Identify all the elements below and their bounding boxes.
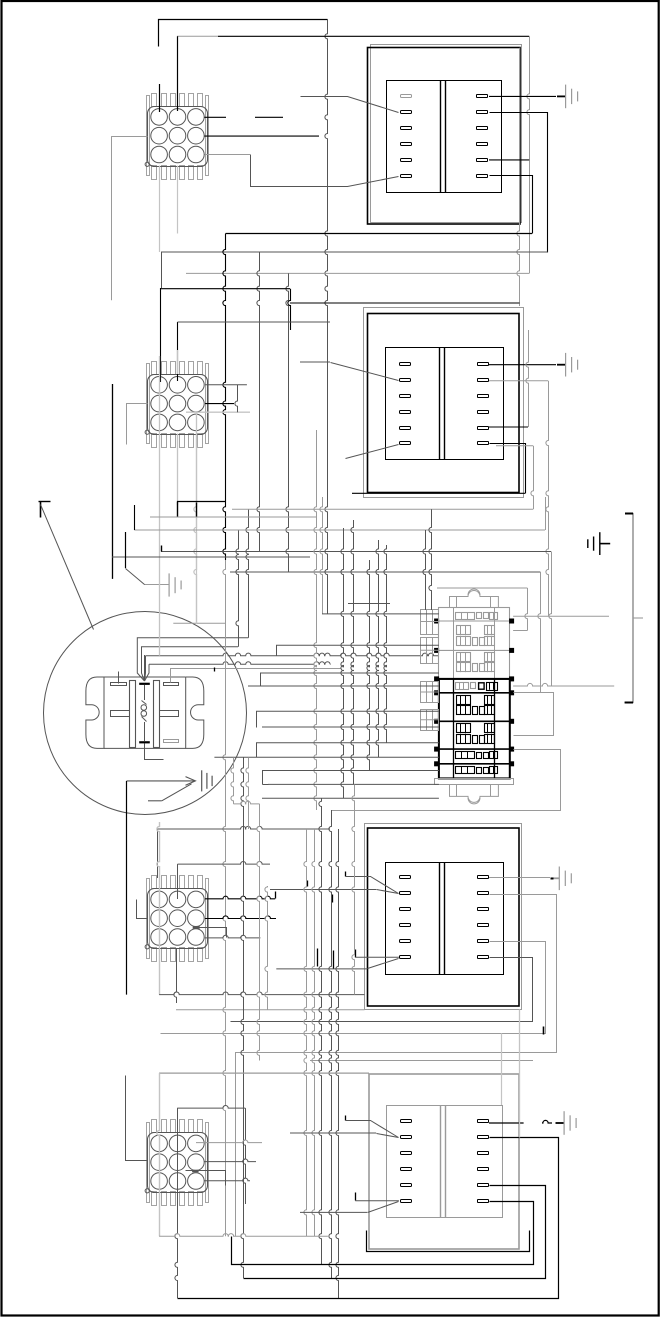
module U4 outer case bbox=[369, 1074, 519, 1249]
wire x551 drop bbox=[549, 552, 552, 687]
grid block A bbox=[421, 610, 439, 635]
wire K4 col1 gray bbox=[157, 1073, 160, 1236]
fuse box upper inner col right bbox=[494, 608, 496, 679]
connector K4 left rail bbox=[147, 1123, 150, 1203]
fuse row G square 2 bbox=[484, 753, 489, 759]
connector K4 bottom tab 2b bbox=[180, 1192, 185, 1206]
detail coil squiggle bottom bbox=[142, 717, 147, 722]
connector K1 bottom tab 1a bbox=[152, 166, 157, 180]
wire bundle x267 bbox=[265, 886, 268, 1010]
connector K3 pin circle 6 bbox=[188, 910, 205, 927]
module U3 gray wrap rect bbox=[365, 824, 522, 1010]
fuse box upper inner col left bbox=[453, 608, 455, 679]
fuse box rail tab left y678 bbox=[435, 677, 439, 681]
wire U4 R2 wrap B3 bbox=[178, 1138, 559, 1299]
wire gray drop x528 bbox=[526, 330, 529, 427]
wire K2 bottom gray 2 bbox=[177, 434, 179, 506]
connector K3 left rail bbox=[147, 879, 150, 959]
detail bottom lead wire bbox=[145, 744, 164, 760]
fuse row B right upper bbox=[485, 626, 495, 635]
connector K4 bottom tab 3a bbox=[189, 1192, 194, 1206]
connector K3 top tab 1b bbox=[162, 876, 167, 889]
fuse box rail tab right y749 bbox=[510, 747, 514, 751]
wire x157 into K3 bbox=[157, 829, 159, 878]
wire K2 col1 light bbox=[159, 356, 161, 656]
fuse row A square 1 bbox=[477, 613, 482, 619]
connector K1 top tab 2b bbox=[180, 94, 185, 107]
module U1 right pin 2 bbox=[477, 111, 488, 114]
module U1 left pin 1 bbox=[401, 95, 412, 98]
connector K1 pin circle 3 bbox=[188, 109, 205, 126]
wire fuse ladder 7 bbox=[262, 726, 439, 728]
wire K3 col1 gray bbox=[157, 822, 160, 995]
connector K4 bottom tab 1a bbox=[152, 1192, 157, 1206]
fuse row D black square bbox=[479, 683, 485, 689]
wire ladder y530 right up bbox=[545, 497, 547, 530]
bracket right bbox=[625, 514, 643, 703]
module U3 inner body bbox=[386, 863, 504, 975]
wire K2 col2 light top bbox=[177, 350, 179, 374]
wire gray y1009 bbox=[176, 1009, 365, 1011]
wire bundle x243 bbox=[241, 757, 244, 1278]
fuse box rail tab right y678 bbox=[510, 677, 514, 681]
wire fuse ladder 2 bbox=[276, 644, 439, 646]
module U4 right pin 6 bbox=[478, 1200, 489, 1203]
fuse row D left group bbox=[456, 683, 469, 690]
wire U3 R6 wrap bbox=[231, 958, 533, 1022]
connector K4 bottom tab 1b bbox=[162, 1192, 167, 1206]
wire ladder stub f bbox=[263, 784, 269, 786]
connector K1 pin circle 7 bbox=[151, 146, 168, 163]
fuse row B right lower bbox=[485, 637, 495, 646]
fuse box lower inner col left bbox=[453, 679, 455, 779]
wire U2 R6 wrap bbox=[490, 444, 526, 494]
connector K1 right rail bbox=[206, 96, 209, 176]
module U3 divider line 2 bbox=[444, 863, 446, 976]
leader line to balloon bbox=[41, 505, 94, 630]
module U4 left pin 3 bbox=[401, 1152, 412, 1155]
detail fan wire 2 bbox=[142, 647, 239, 681]
wire spine x378 bbox=[376, 540, 379, 757]
wire gray drop x519 bbox=[517, 48, 520, 306]
wire fuse wrap C top bbox=[437, 587, 527, 589]
connector K3 pin circle 3 bbox=[188, 891, 205, 908]
connector K2 bottom tab 3b bbox=[198, 434, 203, 448]
module U2 divider line 2 bbox=[444, 348, 446, 461]
wire y493 under U2 bbox=[352, 492, 525, 494]
fuse box rail y763 bbox=[436, 763, 513, 765]
wire K1 bottom gray 1 bbox=[159, 166, 161, 252]
fuse box rail tab right y621 bbox=[510, 619, 514, 623]
wire fuse ladder 6 bbox=[256, 710, 439, 712]
wire ladder stub c bbox=[256, 712, 258, 728]
module U4 left pin 5 bbox=[401, 1184, 412, 1187]
connector K4 top tab 1b bbox=[162, 1120, 167, 1133]
connector K1 pin circle 9 bbox=[188, 146, 205, 163]
wire fuse top a bbox=[348, 603, 390, 605]
wire left drop x112 lower bbox=[112, 384, 114, 579]
fuse row C right lower bbox=[485, 663, 495, 672]
detail center contact bottom bbox=[139, 741, 150, 743]
fuse row F right lower bbox=[485, 735, 495, 744]
fuse box rail tab right y692 bbox=[510, 691, 514, 695]
wire K1 left gray bbox=[112, 136, 148, 138]
module U3 divider line 1 bbox=[439, 863, 441, 976]
fuse row B left upper bbox=[457, 626, 471, 635]
wire K4 col1 feed bbox=[159, 1072, 369, 1074]
module U1 right pin 5 bbox=[477, 159, 488, 162]
connector K1 top tab 3a bbox=[189, 94, 194, 107]
fuse box rail y749 bbox=[436, 748, 513, 750]
wire fuse wrap C bottom bbox=[513, 630, 527, 632]
module U2 gray wrap rect bbox=[364, 308, 524, 498]
module U2 right pin 3 bbox=[478, 395, 489, 398]
black tick x307 bbox=[307, 881, 309, 887]
connector K3 body bbox=[148, 889, 208, 949]
black tick x317 bbox=[317, 949, 319, 967]
connector K3 pin circle 5 bbox=[169, 910, 186, 927]
wire K1 pin3 right b bbox=[255, 116, 283, 118]
connector K1 top tab 1b bbox=[162, 94, 167, 107]
wire x290 drop bbox=[288, 289, 291, 330]
connector K1 bottom tab 2a bbox=[171, 166, 176, 180]
wire U1 R1 to ground bbox=[489, 95, 556, 97]
wire y994 long bbox=[159, 992, 364, 995]
wire x425 drop to grid bbox=[423, 530, 426, 610]
wire y303 bbox=[290, 302, 520, 304]
fuse row E square 2 bbox=[480, 707, 485, 715]
fuse row F left lower bbox=[457, 735, 471, 744]
connector K4 pin circle 4 bbox=[151, 1154, 168, 1171]
connector K1 body bbox=[148, 107, 208, 167]
detail balloon circle bbox=[44, 612, 247, 815]
module U4 left pin 4 bbox=[401, 1168, 412, 1171]
wire K4 chip bbox=[193, 1170, 199, 1172]
module U1 left pin 5 bbox=[401, 159, 412, 162]
fuse row B square 2 bbox=[480, 638, 485, 646]
wire K2 light branch bbox=[186, 411, 250, 413]
connector K1 top tab 1a bbox=[152, 94, 157, 107]
detail right T bar bbox=[160, 711, 179, 717]
fuse row A right group bbox=[490, 613, 498, 620]
connector K3 bottom tab 2a bbox=[171, 948, 176, 962]
connector K3 pin circle 1 bbox=[151, 891, 168, 908]
module U1 inner body bbox=[387, 81, 502, 193]
module U4 right pin 2 bbox=[478, 1136, 489, 1139]
connector K3 top tab 2a bbox=[171, 876, 176, 889]
wire x233 short bbox=[231, 757, 234, 804]
wire U3 fan L6 b feed bbox=[276, 968, 367, 970]
connector K1 pin circle 4 bbox=[151, 127, 168, 144]
module U1 gray wrap rect bbox=[371, 45, 522, 223]
fuse box rail tab left y763 bbox=[435, 762, 439, 766]
wire U2 R2 gray bbox=[489, 380, 548, 382]
wire U3 R5 wrap bbox=[161, 942, 546, 1034]
fuse row A left group bbox=[456, 613, 475, 620]
detail bottom-right contact bbox=[164, 740, 179, 743]
module U2 outer case bbox=[368, 314, 520, 493]
connector K3 bottom tab 1a bbox=[152, 948, 157, 962]
wire spine x353 bbox=[351, 520, 354, 784]
connector K2 pin circle 4 bbox=[151, 395, 168, 412]
fuse box rail tab left y692 bbox=[435, 691, 439, 695]
wire K3 left L bbox=[137, 900, 148, 919]
wire fuse right 1 bbox=[513, 615, 609, 617]
fuse row F square 2 bbox=[480, 736, 485, 744]
module U3 right pin 6 bbox=[478, 956, 489, 959]
wire K2 pin3 right bbox=[205, 384, 247, 386]
module U2 left pin 2 bbox=[400, 379, 411, 382]
connector K1 pin circle 1 bbox=[151, 109, 168, 126]
fuse box bottom cap line 1 bbox=[456, 784, 458, 796]
fuse row C square 1 bbox=[473, 664, 478, 672]
fuse row B square 1 bbox=[473, 638, 478, 646]
wire spine x343 bbox=[341, 528, 344, 798]
module U4 divider line 2 bbox=[445, 1105, 447, 1218]
wire U3 fan L2 a bbox=[346, 877, 399, 894]
connector K4 pin circle 5 bbox=[169, 1154, 186, 1171]
wire y803 bbox=[234, 801, 260, 804]
wire fuse ladder 10 bbox=[262, 770, 439, 772]
wire bundle x354 bbox=[352, 784, 355, 994]
wire top wrap A bbox=[159, 20, 328, 47]
wire U4 fan L2 b bbox=[377, 1134, 399, 1138]
wire U2 leader L2 bbox=[331, 363, 399, 381]
connector K2 top tab 1b bbox=[162, 362, 167, 375]
wire fuse right wrap 3 bbox=[332, 750, 561, 811]
connector K4 pin circle 1 bbox=[151, 1135, 168, 1152]
connector K4 pin circle 8 bbox=[169, 1173, 186, 1190]
wire K4 pin3 right bbox=[196, 1140, 262, 1143]
wire K2 left corner bbox=[127, 404, 148, 445]
wire U3 fan L2 b feed bbox=[270, 889, 376, 891]
wire x245 drop bbox=[243, 1108, 246, 1204]
module U1 left pin 4 bbox=[401, 143, 412, 146]
module U1 left pin 3 bbox=[401, 127, 412, 130]
module U2 right pin 1 bbox=[478, 363, 489, 366]
connector K2 pin circle 2 bbox=[169, 377, 186, 394]
module U2 right pin 2 bbox=[478, 379, 489, 382]
module U2 left pin 6 bbox=[400, 442, 411, 445]
wire U3 fan L6 a bbox=[355, 956, 399, 958]
module U4 left pin 2 bbox=[401, 1136, 412, 1139]
wire K2 pin1 top bbox=[160, 288, 162, 382]
module U3 right pin 2 bbox=[478, 892, 489, 895]
wire ladder y530 bbox=[134, 529, 545, 531]
wire U2 leader feed bbox=[300, 361, 330, 363]
module U4 left pin 1 bbox=[401, 1120, 412, 1123]
fuse box bottom cap bbox=[450, 784, 499, 802]
fuse box rail tab right y721 bbox=[510, 719, 514, 723]
wire ladder y572 bbox=[230, 571, 540, 573]
detail center lead top bbox=[144, 685, 146, 700]
connector K1 bottom tab 3b bbox=[198, 166, 203, 180]
fuse box rail tab left y721 bbox=[435, 719, 439, 723]
wire U3 tick x543 bbox=[543, 1027, 545, 1035]
fuse box top cap line 2 bbox=[490, 597, 492, 608]
ground G3 black blob bbox=[551, 878, 554, 880]
fuse box top cap bbox=[450, 591, 499, 608]
wire ladder y551 bbox=[161, 551, 551, 553]
module U3 left pin 2 bbox=[400, 892, 411, 895]
wire y322 left bbox=[178, 321, 331, 323]
fuse box rail y621 bbox=[436, 620, 513, 622]
wire x548 drop bbox=[546, 381, 549, 617]
wire K4 col2 down bbox=[175, 1108, 178, 1298]
connector K2 pin circle 8 bbox=[169, 414, 186, 431]
wire bundle x338 bbox=[336, 829, 339, 1298]
wire diag to ground G6 bbox=[126, 569, 145, 585]
detail coil squiggle top bbox=[142, 701, 147, 705]
wire gray x501 M3-M4 bbox=[501, 1033, 503, 1105]
fuse row D right group bbox=[487, 683, 498, 691]
connector K2 top tab 1a bbox=[152, 362, 157, 375]
connector K4 pin circle 3 bbox=[188, 1135, 205, 1152]
fuse row F square 1 bbox=[473, 736, 478, 744]
module U2 left pin 5 bbox=[400, 427, 411, 430]
ground G5 bbox=[588, 532, 610, 555]
fuse row H right group bbox=[490, 767, 498, 774]
module U1 right pin 6 bbox=[477, 175, 488, 178]
wire K3 pin9 right bbox=[205, 935, 261, 938]
fuse box bottom cap line 2 bbox=[490, 784, 492, 796]
wire left drop x112 upper bbox=[111, 136, 113, 300]
wire K4 left L bbox=[126, 1076, 148, 1161]
wire K1 bottom gray 2 bbox=[177, 166, 179, 234]
fuse row F right upper bbox=[485, 724, 495, 733]
wire fuse ladder 8 bbox=[256, 742, 439, 744]
wire U4 R6 wrap B1 bbox=[232, 1202, 534, 1265]
connector K1 top tab 2a bbox=[171, 94, 176, 107]
fuse row G left group bbox=[456, 752, 475, 759]
module U4 right pin 4 bbox=[478, 1168, 489, 1171]
wire left y517 bbox=[150, 516, 317, 518]
connector K4 pin circle 6 bbox=[188, 1154, 205, 1171]
module U1 left pin 2 bbox=[401, 111, 412, 114]
black tick x214 bbox=[214, 668, 216, 672]
ground G7 with leader arrow bbox=[127, 770, 213, 801]
wire fuse ladder 1 bbox=[322, 613, 439, 615]
wire U4 R5 wrap B2 bbox=[244, 1186, 546, 1279]
grid block B bbox=[421, 638, 439, 664]
fuse row D gray square bbox=[471, 683, 476, 689]
module U3 left pin 4 bbox=[400, 924, 411, 927]
wire K3 pin6 right bbox=[205, 916, 276, 919]
wire x259 drop bbox=[257, 252, 260, 552]
grid block D bbox=[421, 710, 439, 731]
detail connector housing bbox=[104, 677, 186, 748]
wire K1 pin3 right a bbox=[205, 116, 227, 118]
module U4 right pin 5 bbox=[478, 1184, 489, 1187]
wire under U1 y233 bbox=[226, 233, 532, 235]
wire left corner y501 bbox=[39, 501, 51, 503]
wire K1 pin9 right gray bbox=[205, 154, 251, 156]
detail top-right contact bbox=[164, 683, 179, 686]
wire leader U1 L2 bbox=[301, 97, 399, 113]
connector K1 bottom tab 1b bbox=[162, 166, 167, 180]
wire fuse ladder 9 bbox=[214, 756, 439, 758]
connector K1 bottom tab 2b bbox=[180, 166, 185, 180]
connector K1 top tab 3b bbox=[198, 94, 203, 107]
module U1 divider line 2 bbox=[445, 80, 447, 192]
detail bar right bbox=[154, 681, 160, 748]
wire fuse right 2 bbox=[513, 683, 614, 686]
fuse row F left upper bbox=[457, 724, 471, 733]
wire x134 stub bbox=[134, 505, 136, 530]
fuse row E square 1 bbox=[473, 707, 478, 715]
fuse row A square 2 bbox=[484, 613, 489, 619]
wire fuse right wrap 2 bbox=[514, 693, 554, 736]
connector K3 pin circle 2 bbox=[169, 891, 186, 908]
connector K2 top tab 3a bbox=[189, 362, 194, 375]
wire K3 pin3 end tick bbox=[275, 892, 277, 899]
fuse box rail y721 bbox=[436, 720, 513, 722]
wire bundle x321 bbox=[319, 798, 322, 1265]
wire K4 pin6 right bbox=[204, 1159, 256, 1162]
wire U4 fan L2 a bbox=[346, 1121, 399, 1138]
fuse row H square 2 bbox=[484, 768, 489, 774]
connector K4 top tab 3a bbox=[189, 1120, 194, 1133]
wire K4 col2 feed bbox=[177, 1105, 245, 1108]
fuse row C square 2 bbox=[480, 664, 485, 672]
wire K4 pin9 right bbox=[204, 1178, 250, 1181]
module U3 left pin 6 bbox=[400, 956, 411, 959]
connector K4 top tab 2a bbox=[171, 1120, 176, 1133]
detail fan wire 1 bbox=[137, 638, 248, 681]
wire U3 R1 to ground bbox=[489, 877, 550, 879]
connector K4 bottom tab 3b bbox=[198, 1192, 203, 1206]
detail top-right wire bbox=[171, 669, 341, 683]
connector K2 pin circle 7 bbox=[151, 414, 168, 431]
wire K3 chip bbox=[193, 927, 199, 929]
wire K3 pin3 right bbox=[205, 896, 275, 899]
connector K4 body bbox=[148, 1133, 208, 1193]
connector K4 top tab 2b bbox=[180, 1120, 185, 1133]
connector K4 right rail bbox=[206, 1123, 209, 1203]
module U3 left pin 3 bbox=[400, 908, 411, 911]
module U1 divider line 1 bbox=[440, 80, 442, 192]
wire left y501b bbox=[177, 501, 226, 503]
connector K3 bottom tab 2b bbox=[180, 948, 185, 962]
wire y252 under U1 bbox=[161, 251, 548, 253]
wire fuse ladder 5 bbox=[248, 685, 439, 687]
wire U4 R1 to ground a bbox=[489, 1122, 524, 1124]
wire K2 pin2 top bbox=[177, 322, 179, 381]
module U1 outer case bbox=[368, 48, 521, 225]
wire fuse ladder 12 bbox=[262, 797, 439, 799]
wire x288 drop bbox=[286, 273, 289, 572]
wire K2 col3 light down bbox=[196, 432, 198, 623]
fuse row G right group bbox=[490, 752, 498, 759]
wire K1 pin1 top bbox=[159, 84, 161, 112]
detail center lead bottom bbox=[144, 722, 146, 741]
connector K2 pin circle 6 bbox=[188, 395, 205, 412]
fuse box rail y650 bbox=[436, 649, 513, 651]
connector K2 top tab 3b bbox=[198, 362, 203, 375]
module U2 right pin 5 bbox=[478, 427, 489, 430]
wire gray x519 M3-M4 bbox=[519, 1010, 521, 1138]
module U4 divider line 1 bbox=[440, 1105, 442, 1218]
module U2 left pin 1 bbox=[400, 363, 411, 366]
detail coil turn 1 bbox=[141, 705, 147, 711]
wire leader U1 L6 bbox=[251, 155, 399, 187]
connector K3 top tab 3a bbox=[189, 876, 194, 889]
module U4 left pin 6 bbox=[401, 1200, 412, 1203]
module U3 right pin 5 bbox=[478, 940, 489, 943]
connector K2 index bubble bbox=[145, 430, 149, 434]
connector K4 pin circle 7 bbox=[151, 1173, 168, 1190]
module U3 left pin 1 bbox=[400, 876, 411, 879]
